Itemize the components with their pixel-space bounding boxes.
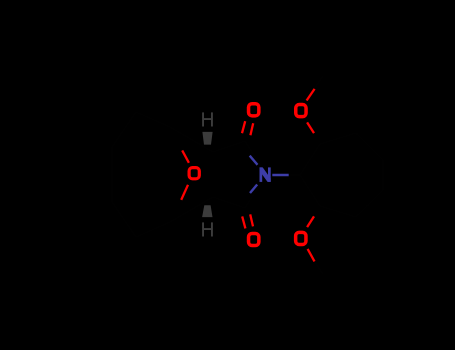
- wire: top O-aryl bond (red half): [307, 122, 314, 133]
- wire: top C=O double bond line 1: [242, 121, 245, 133]
- bottom methoxy O: [296, 232, 306, 244]
- wire: bottom C=O double bond line 1: [242, 216, 245, 228]
- top methoxy O: [296, 105, 306, 117]
- bridge O (oxygen of oxa bridge): [189, 168, 199, 179]
- wire: top O-CH3 bond (red half): [307, 89, 315, 101]
- wire: bond bridge O to lower bridgehead (red half): [181, 185, 188, 200]
- wire: carbon skeleton (near-black on black, as in source image): [112, 76, 383, 274]
- wire: bottom O-aryl bond (red half): [307, 216, 314, 227]
- imide N (nitrogen label): [260, 167, 271, 182]
- wire: top C=O double bond line 2: [250, 123, 253, 135]
- top stereo bold wedge to H: [202, 132, 212, 145]
- wire: bottom O-CH3 bond (red half): [308, 249, 315, 262]
- wire: N to aryl C bond (blue half): [272, 174, 288, 176]
- top carbonyl O: [249, 104, 259, 116]
- wire: bottom C=O double bond line 2: [250, 214, 253, 226]
- bottom stereo bold wedge to H: [202, 205, 212, 217]
- wire: N to bottom carbonyl C (blue half): [250, 185, 257, 194]
- top stereo H label: [202, 112, 213, 126]
- bottom stereo H label: [202, 222, 213, 236]
- wire: bond bridge O to upper bridgehead (red half): [182, 150, 189, 162]
- wire: N to top carbonyl C (blue half): [250, 156, 258, 165]
- bottom carbonyl O: [249, 233, 259, 245]
